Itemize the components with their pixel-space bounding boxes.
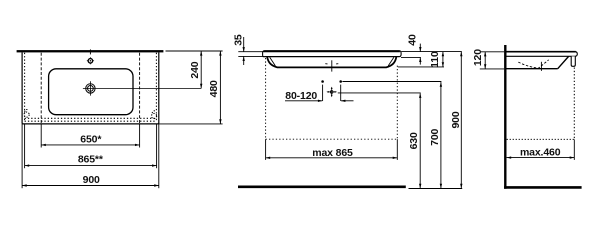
faucet hole centerline tick (89, 49, 91, 54)
svg-text:110: 110 (429, 51, 441, 68)
extension line top (plan right) (166, 50, 223, 52)
hidden edge dotted bottom outer (25, 120, 157, 122)
dimension 240 (189, 51, 202, 88)
svg-text:40: 40 (406, 34, 418, 46)
hidden edge dotted bottom inner (25, 117, 157, 119)
extension lines 900 (21, 124, 23, 188)
extension line bottom (plan right, 480) (159, 123, 223, 125)
svg-text:900: 900 (83, 174, 100, 186)
floor line (side) (504, 186, 581, 189)
drain range tick left (322, 85, 324, 101)
washbasin outer edge (plan) (22, 52, 159, 124)
dimension 650* (41, 133, 139, 146)
drain (plan) (86, 84, 95, 93)
hidden depth dotted horizontal (507, 138, 575, 140)
dimension 40 (406, 34, 421, 65)
extension line to 700 dim (342, 81, 441, 83)
bowl front diagonal (side) (558, 56, 569, 68)
hidden front edge dotted vertical (max.460) (573, 68, 575, 140)
drain range tick right (340, 85, 342, 101)
dimension 480 (208, 51, 222, 124)
extension line bowl bottom right (110) (398, 66, 444, 68)
hidden bottom dash left (325, 63, 327, 65)
hidden bowl contour dashed (side) (518, 60, 548, 68)
extension line top right (40/110/900) (401, 51, 462, 53)
rim band (side) (507, 52, 578, 57)
dimension 80-120 (285, 90, 354, 102)
extension lines 35 (238, 51, 264, 53)
rim top edge thick (side) (507, 51, 576, 53)
hidden bottom dash right (336, 63, 338, 65)
dimension 120 (472, 49, 486, 69)
extension solid (max.460) (573, 139, 575, 160)
svg-text:max 865: max 865 (312, 147, 353, 159)
rim band (front) (263, 51, 402, 57)
extension lines 865 (24, 124, 26, 168)
dimension 700 (429, 82, 442, 188)
centerline tick (side) (540, 62, 542, 71)
hidden bowl edge dashed right (650 extent) (139, 53, 141, 124)
dimension 865** (25, 154, 157, 167)
hidden edge dotted inset left (24, 53, 26, 121)
bowl (plan) (49, 69, 133, 115)
svg-text:35: 35 (232, 34, 244, 46)
rim band bottom line (265, 56, 400, 58)
floor line (front) (238, 186, 406, 189)
drain leader line to 240 dim (83, 87, 201, 89)
cabinet zone dashed bottom (266, 138, 398, 140)
extension lines 650 (40, 124, 42, 148)
drain leader to 630 dim (338, 92, 421, 94)
svg-text:650*: 650* (80, 133, 102, 145)
faucet hole (87, 57, 95, 65)
wall line (side) (504, 45, 506, 189)
floor extension line (front) (409, 188, 463, 190)
svg-text:240: 240 (189, 61, 201, 78)
extension solid left (max 865) (265, 139, 267, 160)
svg-text:480: 480 (208, 80, 220, 97)
svg-text:900: 900 (450, 111, 462, 128)
cabinet zone dashed right (max 865) (396, 66, 398, 140)
hidden edge dotted inset right (155, 53, 157, 121)
extension solid right (max 865) (396, 139, 398, 160)
svg-text:700: 700 (429, 128, 441, 145)
svg-text:max.460: max.460 (520, 147, 561, 159)
svg-text:120: 120 (472, 49, 484, 66)
drain adjustable symbol (326, 87, 337, 98)
extension lines 120 (480, 51, 504, 53)
overflow hole left (24, 112, 29, 117)
rim top edge thick (264, 51, 400, 53)
hidden bowl edge dashed left (650 extent) (40, 53, 42, 124)
wall line (plan) (17, 50, 164, 52)
dimension 35 (232, 34, 244, 65)
dimension max 865 (266, 147, 398, 159)
extension line rim bottom right (40) (401, 56, 421, 58)
dimension 900 (height) (450, 52, 463, 189)
dimension max.460 (507, 147, 575, 159)
dimension 900 (plan) (22, 174, 159, 187)
bowl outline (front) (267, 57, 396, 67)
front apron tab (side) (571, 56, 575, 66)
centerline tick (front) (331, 60, 333, 71)
dimension 110 (429, 51, 444, 68)
svg-text:80-120: 80-120 (285, 90, 317, 102)
bowl underside (side) (507, 68, 558, 70)
dimension 630 (408, 93, 421, 188)
svg-text:630: 630 (408, 132, 420, 149)
overflow hole right (152, 113, 157, 118)
bowl inner edge left (270, 57, 276, 66)
cabinet zone dashed left (max 865) (265, 58, 267, 139)
bowl inner edge right (388, 57, 394, 66)
svg-text:865**: 865** (78, 154, 104, 166)
